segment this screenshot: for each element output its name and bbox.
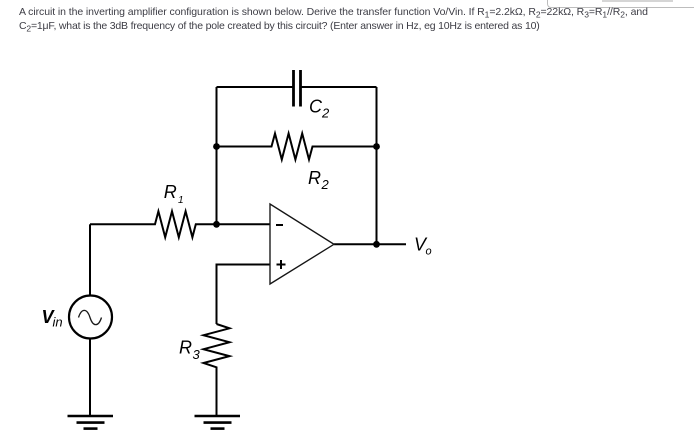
- wire output: [334, 243, 406, 245]
- label R2: [308, 168, 330, 192]
- source Vin: [69, 296, 112, 339]
- svg-text:R: R: [308, 168, 321, 188]
- svg-text:R: R: [164, 182, 177, 202]
- capacitor C2: [294, 70, 301, 107]
- node A inverting input junction: [213, 221, 220, 228]
- svg-text:2: 2: [321, 106, 330, 121]
- top-right scrollbar thumb: [602, 0, 673, 2]
- resistor R1: [90, 211, 270, 237]
- label R3: [179, 338, 201, 363]
- svg-text:in: in: [53, 314, 63, 329]
- svg-text:o: o: [426, 246, 432, 258]
- node junction at R2 right: [373, 143, 380, 150]
- question text: [19, 6, 689, 34]
- wire C2 branch right segment: [301, 86, 377, 88]
- resistor R2: [217, 134, 377, 160]
- ground (R3): [195, 416, 241, 429]
- wire Vin bottom: [89, 339, 91, 417]
- svg-text:3: 3: [193, 347, 201, 362]
- label R1: [164, 182, 184, 206]
- wire noninverting input: [217, 265, 271, 325]
- node output junction: [373, 241, 380, 248]
- wire right feedback vertical: [376, 87, 378, 244]
- top-right cut-off UI panel: [547, 0, 694, 8]
- label Vin: [42, 307, 63, 329]
- wire Vin top: [89, 224, 91, 296]
- svg-text:1: 1: [178, 195, 184, 206]
- svg-text:C: C: [309, 97, 323, 117]
- ground (Vin): [68, 416, 114, 429]
- label Vo: [414, 235, 432, 258]
- svg-text:R: R: [179, 338, 192, 358]
- op-amp U1: [270, 204, 334, 284]
- wire C2 branch left segment: [217, 86, 294, 88]
- svg-text:2: 2: [321, 177, 330, 192]
- node junction at R2 left: [213, 143, 220, 150]
- label C2: [309, 97, 330, 121]
- resistor R3: [204, 324, 230, 416]
- wire left feedback vertical: [216, 87, 218, 224]
